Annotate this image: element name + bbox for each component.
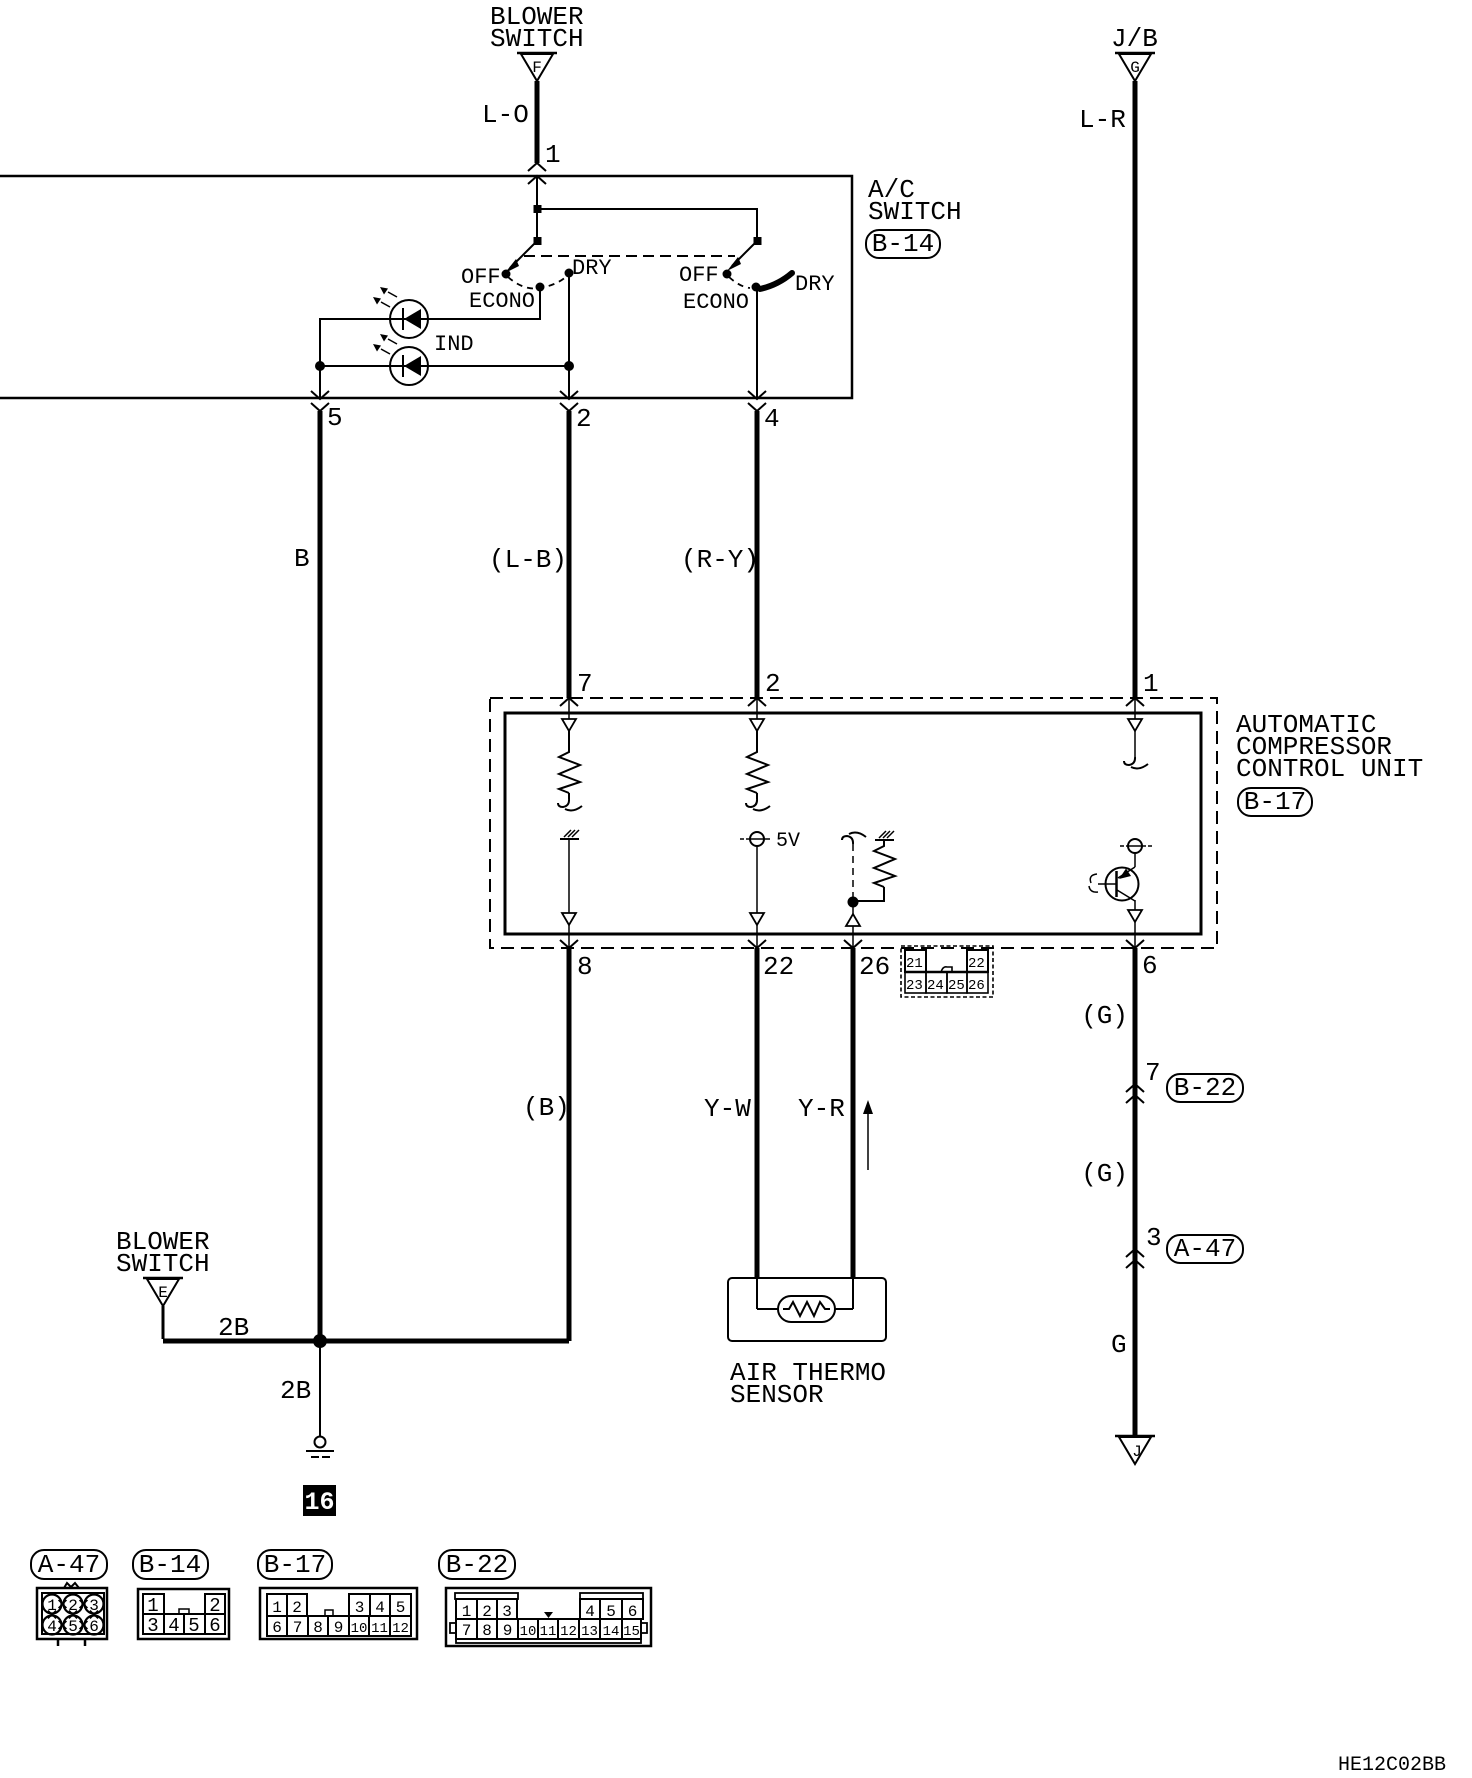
unit pin 7 entry arrow and label xyxy=(560,669,593,706)
wire bus to left switch pivot xyxy=(536,209,538,241)
dashed selector arc right switch xyxy=(729,277,750,288)
svg-text:1: 1 xyxy=(272,1599,282,1617)
svg-text:7: 7 xyxy=(577,669,593,699)
svg-text:OFF: OFF xyxy=(679,263,719,288)
svg-text:23: 23 xyxy=(906,978,923,994)
svg-text:B-22: B-22 xyxy=(1174,1073,1236,1103)
svg-text:25: 25 xyxy=(948,978,965,994)
resistor R2 (pin2 pull) xyxy=(747,731,768,799)
svg-text:2B: 2B xyxy=(218,1313,249,1343)
svg-text:11: 11 xyxy=(540,1624,557,1640)
label A/C SWITCH xyxy=(868,175,962,227)
unit pin 2 entry arrow and label xyxy=(748,669,781,706)
svg-text:2: 2 xyxy=(765,669,781,699)
svg-text:L-O: L-O xyxy=(482,100,529,130)
wire E down xyxy=(162,1306,165,1339)
svg-text:4: 4 xyxy=(47,1618,57,1636)
svg-text:A-47: A-47 xyxy=(1174,1234,1236,1264)
svg-text:5: 5 xyxy=(396,1599,406,1617)
label BLOWER SWITCH (top) xyxy=(490,2,584,54)
wire Y-R pin 26 to air thermo sensor xyxy=(851,948,856,1278)
wire 2B horizontal xyxy=(163,1339,569,1344)
svg-text:SWITCH: SWITCH xyxy=(490,24,584,54)
wire internal pin7-col to pin 8 xyxy=(562,839,576,948)
DRY position thick arc right switch xyxy=(760,272,835,297)
svg-text:2: 2 xyxy=(292,1599,302,1617)
unit pin 22 exit arrow and label xyxy=(748,940,794,982)
A/C switch box B-14 xyxy=(0,176,852,398)
svg-text:3: 3 xyxy=(89,1597,99,1615)
legend pill B-14 xyxy=(133,1550,208,1580)
svg-text:(R-Y): (R-Y) xyxy=(681,545,759,575)
svg-text:10: 10 xyxy=(351,1621,368,1637)
wire junction to pin 26 triangle xyxy=(846,902,860,948)
unit pin 6 exit arrow and label xyxy=(1126,940,1158,981)
LED 2 (indicator) xyxy=(373,334,428,385)
svg-text:3: 3 xyxy=(1146,1223,1162,1253)
pin 5 pass-through arrows and label xyxy=(311,391,343,433)
wire 2B down to ground xyxy=(319,1341,321,1437)
connector code pill B-22 (inline) xyxy=(1167,1073,1243,1103)
connector F blower switch xyxy=(517,53,557,81)
svg-text:26: 26 xyxy=(968,978,985,994)
connector face B-17 xyxy=(260,1588,417,1639)
svg-text:5: 5 xyxy=(188,1615,199,1637)
svg-text:B-22: B-22 xyxy=(446,1550,508,1580)
connector face B-14 xyxy=(138,1589,229,1639)
wire ECONO-right down to pin 4 xyxy=(756,288,758,399)
in-line connector B-22 pin 7 arrows xyxy=(1126,1058,1161,1103)
svg-text:1: 1 xyxy=(1143,669,1159,699)
svg-text:6: 6 xyxy=(209,1615,220,1637)
svg-text:E: E xyxy=(158,1284,168,1302)
connector face A-47 xyxy=(37,1583,107,1646)
svg-text:2: 2 xyxy=(68,1597,78,1615)
svg-text:7: 7 xyxy=(293,1619,303,1637)
svg-text:DRY: DRY xyxy=(795,272,835,297)
svg-text:5V: 5V xyxy=(776,830,800,853)
internal ground pin7 column xyxy=(560,830,579,839)
svg-text:5: 5 xyxy=(327,403,343,433)
svg-text:8: 8 xyxy=(482,1622,492,1640)
thermistor element xyxy=(757,1278,853,1322)
svg-text:HE12C02BB: HE12C02BB xyxy=(1338,1754,1446,1777)
svg-text:13: 13 xyxy=(581,1624,598,1640)
svg-text:IND: IND xyxy=(434,332,474,357)
svg-text:8: 8 xyxy=(577,952,593,982)
connector E blower switch xyxy=(143,1278,183,1306)
unit pin 1 internal pin triangle xyxy=(1128,698,1142,757)
wire pin1 into switch bus xyxy=(536,176,538,209)
wire LED2 row xyxy=(320,365,569,367)
svg-text:9: 9 xyxy=(503,1622,513,1640)
svg-text:7: 7 xyxy=(462,1622,472,1640)
svg-text:24: 24 xyxy=(927,978,944,994)
label AUTOMATIC COMPRESSOR CONTROL UNIT xyxy=(1236,710,1423,784)
unit pin 8 exit arrow and label xyxy=(560,940,593,982)
transistor Q1 xyxy=(1089,853,1139,901)
air thermo sensor box xyxy=(728,1278,886,1341)
svg-text:6: 6 xyxy=(89,1618,99,1636)
svg-text:DRY: DRY xyxy=(572,256,612,281)
internal connection curl R2 xyxy=(746,799,770,810)
svg-text:22: 22 xyxy=(763,952,794,982)
pass-through arrows pin 1 xyxy=(528,163,546,184)
svg-text:B-17: B-17 xyxy=(1244,787,1306,817)
contact DRY left xyxy=(565,256,612,281)
svg-text:6: 6 xyxy=(1142,951,1158,981)
svg-text:14: 14 xyxy=(603,1624,620,1640)
svg-text:J: J xyxy=(1132,1443,1142,1461)
legend pill A-47 xyxy=(31,1550,107,1580)
internal ground resistor column xyxy=(875,831,894,840)
svg-text:3: 3 xyxy=(355,1599,365,1617)
svg-text:ECONO: ECONO xyxy=(683,290,749,315)
svg-text:1: 1 xyxy=(47,1597,57,1615)
svg-text:10: 10 xyxy=(520,1624,537,1640)
chassis ground xyxy=(306,1437,334,1458)
svg-text:Y-W: Y-W xyxy=(704,1094,751,1124)
label BLOWER SWITCH (bottom) xyxy=(116,1227,210,1279)
svg-text:2B: 2B xyxy=(280,1376,311,1406)
svg-text:B-17: B-17 xyxy=(264,1550,326,1580)
svg-text:J/B: J/B xyxy=(1111,24,1158,54)
wire (B) pin 8 down to 2B junction xyxy=(567,948,572,1341)
svg-text:6: 6 xyxy=(272,1619,282,1637)
svg-text:L-R: L-R xyxy=(1079,105,1126,135)
svg-text:2: 2 xyxy=(209,1595,220,1617)
svg-text:4: 4 xyxy=(168,1615,179,1637)
svg-text:B-14: B-14 xyxy=(872,229,934,259)
mechanical link dashed line xyxy=(524,255,735,257)
LED 1 (A/C indicator) xyxy=(373,287,428,338)
svg-text:A-47: A-47 xyxy=(38,1550,100,1580)
unit pin 26 exit arrow and label xyxy=(844,940,890,982)
junction node DRY wire xyxy=(564,361,574,371)
wire ECONO-left to LED row and down to pin 5 xyxy=(320,287,540,399)
svg-text:22: 22 xyxy=(968,956,985,972)
svg-text:2: 2 xyxy=(576,404,592,434)
svg-text:SENSOR: SENSOR xyxy=(730,1380,824,1410)
svg-text:8: 8 xyxy=(313,1619,323,1637)
svg-text:CONTROL UNIT: CONTROL UNIT xyxy=(1236,754,1423,784)
svg-text:G: G xyxy=(1130,59,1140,77)
connector code pill B-14 xyxy=(866,229,940,259)
internal connection curl R1 xyxy=(558,799,582,810)
connector code pill A-47 (inline) xyxy=(1167,1234,1243,1264)
wire Y-W pin 22 to air thermo sensor xyxy=(755,948,760,1278)
internal connection curl pin26 xyxy=(842,833,866,844)
5V supply node xyxy=(740,830,800,853)
svg-text:12: 12 xyxy=(392,1621,409,1637)
junction node left LED row xyxy=(315,361,325,371)
svg-text:G: G xyxy=(1111,1330,1127,1360)
ground reference tag 16 xyxy=(303,1485,336,1517)
legend pill B-17 xyxy=(258,1550,332,1580)
wire B from pin5 down to 2B junction xyxy=(318,411,323,1341)
wire L-R from J/B to unit pin 1 xyxy=(1133,81,1138,698)
wire (R-Y) pin4 to unit pin 2 xyxy=(755,411,760,698)
svg-text:OFF: OFF xyxy=(461,265,501,290)
contact ECONO left xyxy=(469,283,545,315)
unit pin 2 internal pin triangle xyxy=(750,698,764,731)
svg-text:16: 16 xyxy=(304,1488,334,1517)
label AIR THERMO SENSOR xyxy=(730,1358,886,1410)
left switch pivot node xyxy=(534,237,542,245)
signal direction arrow xyxy=(863,1100,873,1170)
svg-text:B: B xyxy=(294,544,310,574)
wire (L-B) pin2 to unit pin 7 xyxy=(567,411,572,698)
supply node circle above transistor xyxy=(1120,839,1152,853)
resistor R1 (pin7 pull) xyxy=(559,731,580,799)
svg-text:15: 15 xyxy=(623,1624,640,1640)
svg-text:F: F xyxy=(532,59,542,77)
unit pin 1 entry arrow and label xyxy=(1126,669,1159,706)
control unit dashed boundary B-17 xyxy=(490,698,1217,948)
contact OFF right xyxy=(679,263,732,288)
svg-text:ECONO: ECONO xyxy=(469,289,535,314)
svg-text:11: 11 xyxy=(371,1621,388,1637)
right switch lever xyxy=(727,237,762,271)
svg-text:3: 3 xyxy=(147,1615,158,1637)
wire G pin 6 down to connector J xyxy=(1133,948,1138,1436)
svg-text:Y-R: Y-R xyxy=(798,1094,845,1124)
svg-text:1: 1 xyxy=(545,140,561,170)
in-line connector A-47 pin 3 arrows xyxy=(1126,1223,1162,1268)
svg-text:B-14: B-14 xyxy=(139,1550,201,1580)
unit pin 7 internal pin triangle xyxy=(562,698,576,731)
svg-text:(G): (G) xyxy=(1081,1001,1128,1031)
internal connection curl pin1 xyxy=(1124,757,1148,768)
wire bus to right switch pivot xyxy=(537,209,757,241)
svg-text:(L-B): (L-B) xyxy=(489,545,567,575)
contact OFF left xyxy=(461,265,511,290)
resistor R3 (thermo pull-up) xyxy=(858,840,895,901)
wire L-O blower switch to A/C switch pin 1 xyxy=(535,81,540,163)
dashed selector arc left switch xyxy=(508,276,567,289)
wire 5V node to pin 22 xyxy=(750,846,764,948)
svg-text:(B): (B) xyxy=(523,1093,570,1123)
pin 2 pass-through arrows and label xyxy=(560,391,592,434)
pin 4 pass-through arrows and label xyxy=(748,391,780,434)
junction node pin26 xyxy=(848,897,859,908)
connector face detail pins 21-26 xyxy=(901,946,993,997)
svg-text:4: 4 xyxy=(375,1599,385,1617)
svg-text:4: 4 xyxy=(764,404,780,434)
svg-text:21: 21 xyxy=(906,956,923,972)
legend pill B-22 xyxy=(439,1550,515,1580)
control unit inner box xyxy=(505,713,1201,934)
svg-text:SWITCH: SWITCH xyxy=(868,197,962,227)
svg-text:12: 12 xyxy=(560,1624,577,1640)
contact ECONO right xyxy=(683,283,761,316)
connector G junction block xyxy=(1115,53,1155,81)
node bus junction xyxy=(534,205,542,213)
svg-text:26: 26 xyxy=(859,952,890,982)
svg-text:5: 5 xyxy=(68,1618,78,1636)
svg-text:7: 7 xyxy=(1145,1058,1161,1088)
connector face B-22 xyxy=(446,1588,651,1646)
svg-text:(G): (G) xyxy=(1081,1159,1128,1189)
junction node 2B xyxy=(313,1334,327,1348)
connector J (sheet link, bottom) xyxy=(1115,1436,1155,1464)
svg-text:SWITCH: SWITCH xyxy=(116,1249,210,1279)
dashed sense wire pin26 column xyxy=(852,844,854,898)
wire transistor emitter to pin 6 xyxy=(1128,900,1142,948)
left switch lever xyxy=(505,241,537,273)
svg-text:1: 1 xyxy=(147,1595,158,1617)
svg-text:9: 9 xyxy=(334,1619,344,1637)
wire DRY-left contact down to pin 2 xyxy=(568,273,570,399)
connector code pill B-17 xyxy=(1238,787,1312,817)
